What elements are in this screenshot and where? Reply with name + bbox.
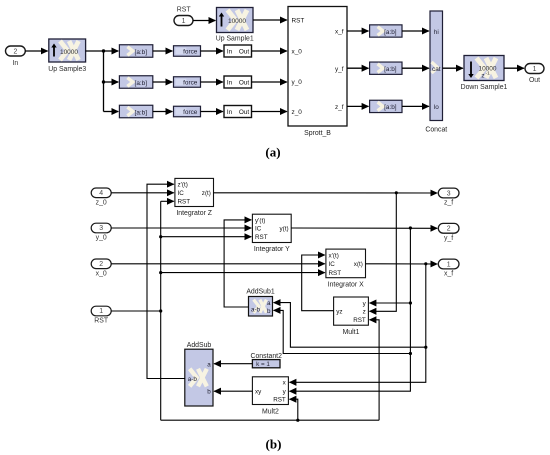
integrator block Integrator Y [252, 214, 291, 253]
svg-text:lo: lo [434, 104, 439, 111]
svg-text:cat: cat [432, 66, 441, 73]
junction z feedback [395, 191, 398, 194]
svg-text:In: In [227, 80, 233, 87]
slice block z_f [370, 100, 402, 112]
wire AddSub1 out to Integrator Y ydot [224, 220, 251, 307]
force block row3 [174, 106, 201, 117]
svg-text:-1: -1 [486, 71, 491, 77]
wire y_0 to Integrator Y IC [111, 227, 251, 229]
wire branch to Slice row3 [104, 111, 119, 113]
svg-text:Out: Out [529, 77, 540, 84]
svg-text:RST: RST [353, 317, 366, 324]
wire Integrator Z z(t) to z_f [214, 192, 438, 194]
wire Sprott_B y_f to Slice [347, 67, 368, 69]
svg-text:xy: xy [255, 389, 262, 396]
force block row1 [174, 46, 201, 57]
svg-text:1: 1 [182, 18, 186, 25]
svg-text:z_f: z_f [444, 200, 453, 207]
svg-text:Concat: Concat [425, 127, 447, 134]
wire z feedback to Mult1 z [370, 193, 397, 311]
wire x feedback to AddSub1 a [274, 303, 426, 348]
y feedback vertical wire [290, 228, 411, 391]
svg-text:y_f: y_f [335, 66, 344, 73]
addsub block AddSub [185, 342, 213, 406]
junction y feedback [409, 226, 412, 229]
wire force to In-Out row2 [201, 81, 223, 83]
svg-text:In: In [227, 109, 233, 116]
svg-text:hi: hi [434, 29, 439, 36]
wire y feedback to AddSub1 b [274, 310, 411, 353]
wire Slice to force row2 [153, 81, 173, 83]
gateway block In-Out row3 [224, 106, 252, 118]
svg-text:Mult1: Mult1 [343, 329, 360, 336]
input port In (2) [6, 46, 26, 67]
wire force to In-Out row3 [201, 111, 223, 113]
svg-text:Mult2: Mult2 [262, 409, 279, 416]
svg-text:2: 2 [447, 226, 451, 233]
wire Mult2 out to AddSub b [214, 390, 252, 392]
output port y_f (2) [438, 223, 459, 242]
svg-text:y'(t): y'(t) [255, 217, 265, 224]
svg-text:Out: Out [239, 80, 250, 87]
wire Integrator Y y(t) to y_f [291, 227, 437, 229]
wire z_0 to Integrator Z IC [111, 192, 174, 194]
svg-text:x_0: x_0 [292, 49, 303, 56]
svg-text:RST: RST [292, 18, 305, 25]
svg-text:AddSub: AddSub [187, 342, 212, 349]
RST bus vertical wire [160, 201, 162, 420]
svg-text:3: 3 [447, 190, 451, 197]
svg-text:y(t): y(t) [280, 225, 289, 232]
x feedback vertical wire [290, 264, 426, 383]
input port y_0 (3) [91, 223, 111, 241]
svg-text:yz: yz [336, 309, 342, 316]
caption (b) [266, 437, 282, 452]
svg-text:Constant2: Constant2 [250, 353, 282, 360]
svg-text:y_0: y_0 [96, 235, 107, 242]
svg-text:z_0: z_0 [96, 199, 107, 206]
svg-text:a: a [207, 362, 211, 369]
caption (a) [265, 145, 280, 160]
wire Sprott_B z_f to Slice [347, 105, 368, 107]
input port x_0 (2) [91, 259, 111, 277]
wire In-Out to Sprott_B row2 [252, 81, 287, 83]
junction y-Mult1 [409, 301, 412, 304]
svg-text:a-b: a-b [251, 306, 261, 313]
wire Constant2 to AddSub a [214, 363, 252, 365]
svg-text:a: a [267, 300, 271, 307]
RST bottom bus wire [161, 419, 379, 421]
branch vertical wire [103, 51, 105, 112]
junction RST-IntX [159, 271, 162, 274]
wire RST to Up Sample1 [193, 20, 215, 22]
wire Sprott_B x_f to Slice [347, 30, 368, 32]
svg-text:2: 2 [13, 48, 17, 55]
svg-text:x(t): x(t) [354, 261, 363, 268]
junction y-AddSub1 [409, 352, 412, 355]
integrator block Integrator Z [175, 178, 214, 217]
svg-text:Up Sample1: Up Sample1 [216, 36, 254, 43]
wire Slice to force row3 [153, 111, 173, 113]
svg-text:Down Sample1: Down Sample1 [461, 84, 508, 91]
junction x-AddSub1 [424, 346, 427, 349]
svg-text:10000: 10000 [228, 18, 246, 25]
addsub block AddSub1 [246, 289, 275, 316]
svg-text:(b): (b) [266, 437, 282, 452]
svg-text:Integrator X: Integrator X [328, 281, 364, 288]
svg-text:x_f: x_f [335, 29, 344, 36]
wire y feedback to Mult1 y [370, 302, 411, 304]
wire RST bus to Integrator Y RST [161, 236, 252, 238]
subsystem block Sprott_B [288, 7, 347, 138]
wire Slice to Concat hi [402, 30, 429, 32]
gateway block In-Out row1 [224, 45, 252, 57]
svg-text:RST: RST [255, 234, 268, 241]
down-sample block Down Sample1 [461, 56, 508, 92]
svg-text:z(t): z(t) [202, 190, 211, 197]
wire force to In-Out row1 [201, 50, 223, 52]
svg-text:z_0: z_0 [292, 109, 303, 116]
svg-text:Integrator Z: Integrator Z [176, 210, 212, 217]
svg-text:IC: IC [329, 261, 336, 268]
slice block x_f [370, 25, 402, 37]
force block row2 [174, 77, 201, 88]
output port Out (1) [525, 64, 544, 85]
svg-text:y_0: y_0 [292, 79, 303, 86]
wire RST bus to Integrator Z RST [161, 200, 174, 202]
multiplier block Mult2 [252, 377, 288, 416]
svg-text:1: 1 [533, 66, 537, 73]
wire branch to Slice row2 [104, 81, 119, 83]
input port z_0 (4) [91, 188, 111, 206]
concat block Concat [425, 11, 447, 134]
svg-text:force: force [183, 109, 198, 116]
junction dot row2 [102, 80, 105, 83]
svg-text:RST: RST [273, 397, 286, 404]
junction RST source [159, 309, 162, 312]
wire In-Out to Sprott_B row1 [252, 50, 287, 52]
wire Up Sample1 to Sprott_B RST [253, 19, 287, 21]
svg-text:Out: Out [239, 109, 250, 116]
svg-text:x_0: x_0 [96, 270, 107, 277]
svg-text:[a:b]: [a:b] [135, 109, 148, 116]
wire Slice to Concat lo [402, 105, 429, 107]
multiplier block Mult1 [334, 297, 369, 336]
slice block row3 [119, 105, 152, 118]
svg-text:Sprott_B: Sprott_B [304, 130, 331, 137]
svg-text:Up Sample3: Up Sample3 [48, 66, 86, 73]
svg-text:force: force [183, 80, 198, 87]
wire In to Up Sample3 [25, 50, 47, 52]
input port RST (1) [91, 306, 111, 324]
svg-text:Out: Out [239, 49, 250, 56]
svg-text:In: In [13, 60, 19, 67]
output port z_f (3) [438, 188, 459, 207]
junction RST-Mult2 [296, 419, 299, 422]
svg-text:[a:b]: [a:b] [135, 49, 148, 56]
junction dot row1 [102, 49, 105, 52]
junction RST-IntY [159, 235, 162, 238]
svg-text:RST: RST [329, 270, 342, 277]
svg-text:[a:b]: [a:b] [384, 104, 397, 111]
svg-text:RST: RST [94, 318, 109, 325]
svg-text:z'(t): z'(t) [178, 182, 188, 189]
svg-text:x_f: x_f [444, 271, 453, 278]
svg-text:1: 1 [447, 261, 451, 268]
label RST above port [177, 7, 192, 14]
wire AddSub out to Integrator Z zdot [147, 184, 185, 378]
svg-text:a-b: a-b [188, 376, 198, 383]
wire Integrator X x(t) to x_f [366, 263, 438, 265]
svg-text:z: z [363, 309, 366, 316]
up-sample block Up Sample3 [48, 39, 86, 73]
gateway block In-Out row2 [224, 76, 252, 88]
integrator block Integrator X [326, 249, 366, 288]
svg-text:In: In [227, 49, 233, 56]
slice block y_f [370, 62, 402, 74]
svg-text:k = 1: k = 1 [256, 361, 270, 368]
svg-text:[a:b]: [a:b] [384, 66, 397, 73]
wire In-Out to Sprott_B row3 [252, 111, 287, 113]
svg-text:2: 2 [99, 261, 103, 268]
svg-text:IC: IC [178, 190, 185, 197]
svg-text:4: 4 [99, 190, 103, 197]
svg-text:RST: RST [177, 7, 192, 14]
svg-text:3: 3 [99, 225, 103, 232]
wire Down Sample1 to Out [504, 67, 524, 69]
wire Up Sample3 to branch node [86, 50, 104, 52]
svg-text:AddSub1: AddSub1 [246, 289, 275, 296]
svg-text:b: b [267, 308, 271, 315]
svg-text:1: 1 [99, 308, 103, 315]
svg-text:[a:b]: [a:b] [135, 80, 148, 87]
svg-text:y_f: y_f [444, 235, 453, 242]
wire branch to Slice row1 [104, 50, 119, 52]
svg-text:10000: 10000 [60, 49, 78, 56]
wire Mult1 out to Integrator X xdot [302, 255, 334, 311]
junction x feedback [424, 262, 427, 265]
wire RST bus to Integrator X RST [161, 272, 325, 274]
constant block Constant2 [250, 353, 282, 368]
svg-text:IC: IC [255, 225, 262, 232]
input port RST (1) [174, 16, 193, 26]
wire RST to RST bus [111, 310, 161, 312]
svg-text:z: z [481, 73, 484, 80]
wire Slice to force row1 [153, 50, 173, 52]
svg-text:b: b [207, 388, 211, 395]
svg-text:z_f: z_f [335, 104, 344, 111]
up-sample block Up Sample1 [216, 8, 254, 43]
svg-text:[a:b]: [a:b] [384, 29, 397, 36]
wire Concat to Down Sample1 [443, 67, 463, 69]
slice block row1 [119, 45, 152, 58]
svg-text:Integrator Y: Integrator Y [254, 246, 290, 253]
svg-text:x'(t): x'(t) [329, 252, 339, 259]
wire RST bus to Mult2 RST [290, 399, 298, 420]
wire Slice to Concat cat [402, 67, 429, 69]
wire RST bus to Mult1 RST [370, 320, 380, 420]
svg-text:force: force [183, 49, 198, 56]
svg-text:(a): (a) [265, 145, 280, 160]
output port x_f (1) [438, 259, 459, 278]
slice block row2 [119, 76, 152, 89]
svg-text:RST: RST [178, 199, 191, 206]
wire x_0 to Integrator X IC [111, 263, 325, 265]
